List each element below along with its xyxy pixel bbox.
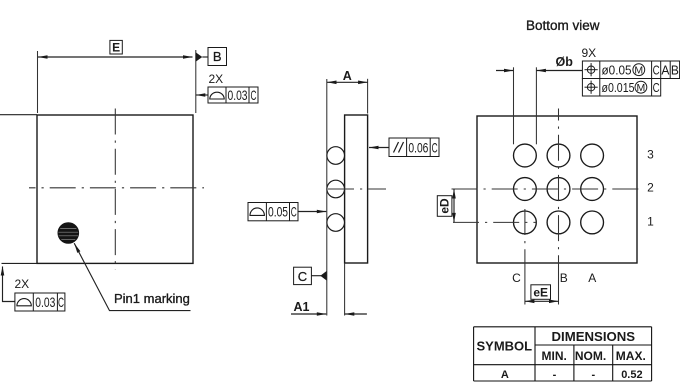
profile of a line symbol (top right frame) <box>210 92 224 99</box>
dimension E extension line left <box>37 51 39 113</box>
dimension E extension line right <box>195 50 197 113</box>
package body (side view) <box>345 115 368 263</box>
datum C triangle <box>320 271 326 281</box>
svg-text:A: A <box>588 271 596 285</box>
dimension A extension right <box>367 79 369 114</box>
svg-text:C: C <box>298 269 307 284</box>
datum B box <box>208 48 227 66</box>
horizontal centerline <box>29 187 204 189</box>
svg-text:Pin1 marking: Pin1 marking <box>114 291 190 306</box>
dimension eE line <box>525 300 559 302</box>
pin1 marking dot <box>58 223 79 244</box>
dimension A1 line right <box>345 313 367 315</box>
dimension E line <box>38 56 193 58</box>
dimension eD line <box>453 189 455 222</box>
svg-text:-: - <box>553 369 557 381</box>
svg-text:NOM.: NOM. <box>575 349 606 363</box>
leader (bottom left fcf) <box>3 267 15 302</box>
dimension A1 arrow left (pointing right) <box>317 312 327 316</box>
dimension A1 line left <box>291 313 326 315</box>
pin1 leader <box>74 243 190 310</box>
svg-text:9X: 9X <box>582 46 597 60</box>
svg-text:2: 2 <box>647 181 654 195</box>
parallelism frame leader <box>369 147 389 149</box>
dimension E label box <box>110 40 122 54</box>
ball 3 (side) <box>327 214 345 232</box>
svg-text:B: B <box>213 49 222 64</box>
svg-text:M: M <box>637 82 646 94</box>
col C extension below square (solid) <box>524 264 526 305</box>
table outer & grid lines <box>474 326 652 328</box>
ball 2 (side) <box>327 180 345 198</box>
svg-text:E: E <box>112 41 120 55</box>
dim b extension right (ball tangent) <box>535 67 537 144</box>
datum B triangle <box>196 52 203 62</box>
svg-text:M: M <box>634 65 643 77</box>
ball C1 <box>514 211 537 234</box>
dimension eE label box <box>531 285 551 300</box>
svg-text:1: 1 <box>647 215 654 229</box>
position tolerance frame row 1 <box>582 61 679 79</box>
dimension eD arrow down <box>452 213 456 223</box>
svg-text:B: B <box>671 62 679 77</box>
svg-text:C: C <box>653 80 660 95</box>
datum C stem <box>311 275 321 277</box>
balls 3x3 <box>514 144 604 234</box>
dimension A line <box>327 81 368 83</box>
bottom edge extension line (bottom left) <box>2 262 38 264</box>
dimension A arrow right <box>358 81 368 85</box>
parallelism symbol <box>394 142 404 153</box>
svg-text:Bottom view: Bottom view <box>526 18 600 33</box>
svg-text:-: - <box>591 369 595 381</box>
parallelism tolerance frame <box>389 138 439 157</box>
M modifier row 1 <box>633 64 645 76</box>
dimension eE arrow left <box>525 300 535 304</box>
dimension eE arrow right <box>549 300 559 304</box>
position symbol row 1 <box>585 63 598 76</box>
ball B2 <box>547 178 570 201</box>
ball A2 <box>581 178 604 201</box>
svg-text:ø0.05: ø0.05 <box>602 62 632 77</box>
svg-text:3: 3 <box>647 148 654 162</box>
svg-text:MIN.: MIN. <box>542 349 567 363</box>
ball B3 <box>547 144 570 167</box>
svg-text:SYMBOL: SYMBOL <box>476 339 532 354</box>
profile tolerance frame (side view) <box>248 203 298 221</box>
ball A1 <box>581 211 604 234</box>
package outline (bottom view) <box>477 116 637 263</box>
svg-text:0.05: 0.05 <box>268 204 288 220</box>
svg-text:C: C <box>251 87 257 103</box>
dimension A arrow left <box>327 81 337 85</box>
svg-text:C: C <box>291 204 297 220</box>
svg-text:B: B <box>560 271 568 285</box>
vertical centerline <box>114 109 116 270</box>
svg-text:C: C <box>512 271 521 285</box>
svg-text:DIMENSIONS: DIMENSIONS <box>552 329 636 344</box>
profile tolerance frame (top right) <box>208 87 258 103</box>
svg-text:0.03: 0.03 <box>35 294 55 310</box>
dim b line left <box>496 70 514 72</box>
datum C / seating plane line <box>326 79 328 316</box>
profile tolerance frame (top right): leader arrowhead <box>196 93 206 97</box>
profile tolerance frame (bottom left) <box>15 293 65 311</box>
ball B1 <box>547 211 570 234</box>
col C centerline (through ball C1) <box>524 209 526 264</box>
profile of a line symbol (bottom left frame) <box>17 299 31 306</box>
svg-text:Øb: Øb <box>556 55 574 69</box>
svg-text:C: C <box>653 62 660 77</box>
dimension E arrow right <box>183 55 193 59</box>
vertical centerline col B <box>558 109 560 264</box>
profile frame leader arrowhead (side view) <box>317 210 327 214</box>
position tolerance frame row 2 <box>582 79 660 97</box>
parallelism frame leader arrowhead <box>369 146 379 150</box>
side view centerline <box>328 188 386 190</box>
svg-text:0.52: 0.52 <box>621 369 642 381</box>
svg-text:A: A <box>343 69 352 83</box>
datum C box <box>294 267 312 284</box>
svg-text:eE: eE <box>533 286 548 300</box>
svg-text:2X: 2X <box>209 72 224 86</box>
horizontal centerline row 2 <box>452 188 643 190</box>
pin1 leader arrowhead <box>74 243 80 253</box>
dim b line right (to tolerance frames) <box>536 70 582 72</box>
ball A3 <box>581 144 604 167</box>
ball 1 (side) <box>327 147 345 165</box>
svg-text:C: C <box>432 139 438 155</box>
top edge extension to left image edge <box>0 114 37 116</box>
svg-text:eD: eD <box>438 198 452 214</box>
svg-text:2X: 2X <box>15 277 30 291</box>
profile frame leader (side view) <box>298 211 326 213</box>
svg-text:A1: A1 <box>294 300 310 314</box>
dim b arrow right (pointing left) <box>536 69 546 73</box>
dim b arrow left (pointing right) <box>504 69 514 73</box>
leader arrowhead up (bottom left) <box>1 266 5 276</box>
profile of a line symbol (side view frame) <box>250 208 264 215</box>
svg-text:0.06: 0.06 <box>408 139 428 155</box>
svg-text:C: C <box>58 294 64 310</box>
svg-text:MAX.: MAX. <box>616 349 646 363</box>
dimension A1 extension (body bottom) <box>344 263 346 316</box>
dimension E arrow left <box>38 55 48 59</box>
dimension A1 arrow right (pointing left) <box>345 312 355 316</box>
svg-text:ø0.015: ø0.015 <box>602 80 635 95</box>
ball C2 <box>514 178 537 201</box>
position symbol row 2 <box>585 81 598 94</box>
row 1 centerline (through ball C1) <box>453 221 537 223</box>
svg-text:A: A <box>501 369 509 381</box>
dim b extension left (ball tangent) <box>513 67 515 144</box>
svg-text:A: A <box>661 62 669 77</box>
dimension eD arrow up <box>452 189 456 199</box>
profile tolerance frame (top right): leader <box>196 94 208 96</box>
M modifier row 2 <box>635 81 647 93</box>
ball C3 <box>514 144 537 167</box>
datum B stem <box>202 56 208 58</box>
dimension eD label box <box>437 196 452 217</box>
col B extension below square (solid) <box>558 264 560 305</box>
package body outline (top view) <box>37 115 193 263</box>
svg-text:0.03: 0.03 <box>228 87 248 103</box>
